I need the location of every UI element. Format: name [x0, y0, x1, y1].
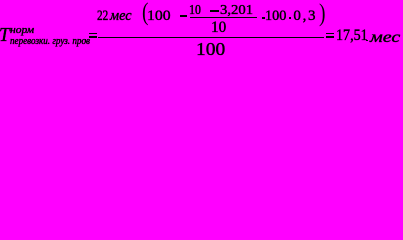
- multiplication dot 2: [289, 17, 291, 19]
- main denominator "100": [196, 40, 225, 58]
- result unit "мес": [370, 30, 400, 46]
- numerator coefficient "22": [97, 9, 108, 24]
- symbol T (italic): [0, 25, 9, 45]
- subscript tail mark: [85, 39, 87, 42]
- multiplication dot 1: [262, 17, 265, 19]
- inner fraction numerator "10": [189, 4, 201, 18]
- inner fraction bar: [190, 17, 257, 19]
- equals sign (right) top stroke: [326, 33, 334, 35]
- closing parenthesis: [319, 1, 325, 26]
- equals sign (left) bottom stroke: [89, 36, 97, 38]
- subscript "перевозки. груз. пров": [10, 37, 90, 47]
- factor "100": [265, 9, 286, 24]
- inner minus sign: [210, 10, 218, 12]
- equals sign (right) bottom stroke: [326, 36, 334, 38]
- numerator "100": [147, 9, 171, 24]
- minus sign after 100: [180, 15, 188, 17]
- inner fraction denominator "10": [211, 20, 226, 36]
- numerator unit "мес": [110, 9, 132, 24]
- opening parenthesis: [142, 0, 148, 25]
- equals sign (left) top stroke: [89, 33, 97, 35]
- result "17,51": [336, 28, 368, 44]
- inner numerator "3,201": [220, 4, 253, 18]
- period after result: [366, 40, 368, 42]
- superscript "норм": [10, 26, 34, 37]
- factor "0,3": [293, 9, 317, 24]
- main fraction bar: [98, 37, 324, 39]
